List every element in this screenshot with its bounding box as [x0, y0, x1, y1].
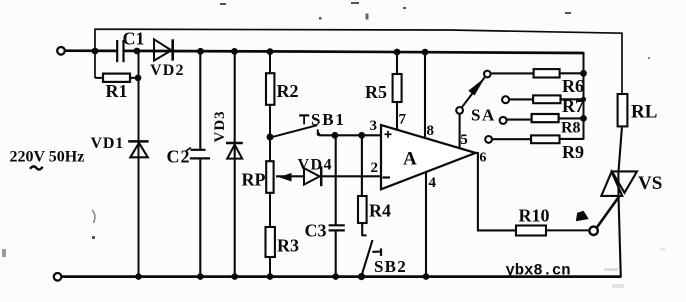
svg-text:4: 4 — [429, 175, 437, 191]
svg-text:VS: VS — [638, 173, 662, 194]
terminal (bottom input) — [54, 273, 62, 281]
svg-text:R9: R9 — [562, 142, 584, 162]
node junction R8 bus — [580, 115, 587, 122]
wire pin3 net — [319, 134, 381, 136]
diode VD3 branch wire — [234, 51, 236, 277]
resistor R5 — [393, 74, 402, 102]
node junction C3 bottom — [332, 273, 339, 280]
resistor R9 — [531, 135, 584, 162]
node junction R7 bus — [581, 97, 586, 102]
RP wiper arrow — [276, 175, 304, 177]
node junction R5 branch — [394, 49, 401, 56]
node junction SB2 bottom — [358, 273, 365, 280]
wire main top rail — [65, 51, 584, 53]
resistor R6 — [534, 69, 584, 96]
svg-text:R3: R3 — [277, 236, 299, 256]
capacitor C3 — [329, 225, 345, 230]
wire pin4 branch — [425, 172, 427, 277]
wire bottom rail — [61, 275, 621, 278]
resistor R2 — [266, 73, 274, 105]
wire RL to VS — [619, 126, 623, 171]
capacitor C2 branch wire — [199, 51, 201, 277]
switch SB2 — [362, 223, 381, 275]
wire output pin6 to R10 — [476, 153, 516, 231]
capacitor C1 — [117, 40, 123, 62]
node junction RP top / SB1 — [267, 134, 274, 141]
node junction VD1 bottom — [135, 273, 142, 280]
terminal (top input) — [57, 47, 65, 55]
SA contact 1 — [484, 71, 491, 78]
svg-text:3: 3 — [370, 118, 378, 134]
svg-text:8: 8 — [427, 123, 435, 139]
node junction pin8 branch — [422, 49, 429, 56]
wire top supply line to RL — [95, 29, 622, 94]
resistor R7 — [533, 95, 584, 116]
potentiometer RP — [266, 161, 273, 193]
wire SA contact 4 to R9 — [492, 138, 531, 140]
SA contact 2 — [502, 96, 509, 103]
gate arrow mark — [576, 211, 589, 222]
svg-text:VD3: VD3 — [212, 110, 228, 142]
node junction R1 right — [135, 75, 142, 82]
svg-text:5: 5 — [460, 132, 468, 148]
capacitor C2 — [186, 148, 210, 159]
svg-text:VD2: VD2 — [150, 62, 185, 79]
wire R4 branch — [361, 135, 363, 196]
svg-text:RP: RP — [242, 170, 266, 190]
resistor R4 — [358, 196, 367, 223]
wire SA contact 1 to R6 — [491, 72, 534, 74]
node junction C2 bottom — [197, 273, 204, 280]
node junction R3 bottom — [267, 273, 274, 280]
svg-text:220V 50Hz: 220V 50Hz — [10, 149, 85, 166]
wire R10 to gate — [546, 229, 590, 231]
switch SB1 — [272, 115, 318, 137]
node junction R4 tap — [358, 132, 365, 139]
svg-text:7: 7 — [399, 112, 407, 128]
diode VD1 — [128, 141, 148, 157]
wire SA bus vertical — [583, 52, 585, 140]
wire R2/RP/R3 branch — [269, 51, 271, 277]
svg-text:R10: R10 — [519, 206, 550, 226]
node junction VD3 branch — [231, 48, 238, 55]
svg-text:C2: C2 — [167, 147, 191, 167]
resistor R8 — [532, 114, 581, 137]
node junction R2 branch — [267, 48, 274, 55]
wire R8 to bus — [559, 117, 584, 119]
diode VD4 — [304, 166, 321, 186]
svg-text:RL: RL — [631, 102, 657, 123]
svg-text:6: 6 — [479, 150, 486, 165]
SA contact 3 — [500, 117, 507, 124]
minus marking pin2 — [383, 176, 391, 178]
svg-text:R8: R8 — [561, 120, 581, 137]
resistor R3 — [266, 227, 275, 257]
diode VD3 — [226, 143, 243, 159]
SA contact 4 — [485, 136, 492, 143]
wire pin5 to SA pole — [459, 114, 461, 149]
node junction at x95 on rail — [92, 48, 99, 55]
svg-text:R4: R4 — [369, 201, 391, 221]
op-amp A — [381, 125, 476, 189]
switch SA pole — [456, 107, 463, 114]
svg-text:VD4: VD4 — [298, 156, 334, 173]
wire pin7/R5 branch — [396, 51, 398, 131]
svg-text:SB2: SB2 — [374, 257, 407, 276]
svg-text:R1: R1 — [106, 81, 128, 101]
svg-text:R2: R2 — [277, 81, 299, 101]
svg-text:SB1: SB1 — [311, 110, 346, 129]
svg-text:R5: R5 — [365, 82, 387, 102]
SA arm — [462, 77, 485, 107]
wire gate to VS — [597, 196, 620, 228]
svg-text:ybx8.cn: ybx8.cn — [506, 262, 571, 280]
wire R6 to bus — [560, 72, 584, 74]
wire SA contact 3 to R8 — [507, 119, 532, 121]
svg-text:A: A — [403, 149, 417, 170]
wire SA contact 2 to R7 — [509, 98, 533, 100]
node junction C2 branch — [197, 48, 204, 55]
resistor R10 — [516, 206, 550, 236]
thyristor VS — [601, 171, 637, 196]
wire VD1 branch — [138, 51, 140, 277]
wire pin2 net — [321, 175, 381, 177]
node junction VD3 bottom — [231, 273, 238, 280]
svg-text:R6: R6 — [562, 76, 584, 96]
plus marking pin3 — [385, 131, 392, 138]
diode VD2 — [154, 39, 173, 60]
svg-text:SA: SA — [471, 106, 496, 125]
svg-text:VD1: VD1 — [91, 135, 125, 152]
svg-text:C1: C1 — [123, 29, 145, 49]
wire VS to bottom rail — [619, 196, 621, 278]
wire pin8 branch — [424, 51, 426, 138]
resistor RL — [618, 94, 628, 126]
svg-text:C3: C3 — [305, 220, 327, 240]
wire C3 branch — [335, 135, 337, 276]
node junction at x137 after C1 — [134, 48, 141, 55]
wire R7 to bus — [561, 98, 584, 100]
gate terminal circle — [589, 227, 597, 235]
node junction R6 bus — [580, 70, 587, 77]
wire R9 to bus — [560, 138, 584, 140]
node junction pin4 bottom — [423, 273, 430, 280]
svg-text:2: 2 — [371, 160, 379, 176]
node junction C3 tap — [332, 132, 339, 139]
resistor R1 — [95, 77, 139, 79]
